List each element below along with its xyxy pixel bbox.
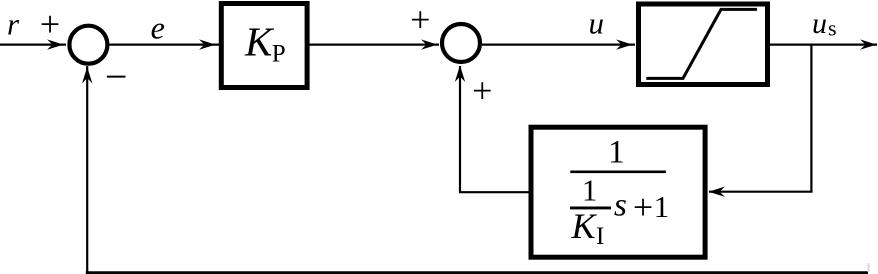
svg-text:s: s (828, 16, 837, 41)
svg-text:−: − (105, 54, 128, 99)
svg-text:1: 1 (582, 173, 598, 208)
svg-text:r: r (7, 7, 20, 42)
svg-text:e: e (151, 10, 165, 46)
svg-text:1: 1 (608, 134, 625, 170)
svg-text:+: + (40, 4, 60, 44)
svg-text:u: u (812, 7, 827, 40)
svg-text:P: P (272, 41, 286, 68)
svg-text:K: K (244, 19, 275, 65)
svg-text:K: K (571, 206, 598, 246)
svg-text:+: + (633, 187, 653, 227)
svg-text:u: u (588, 6, 604, 41)
svg-text:+: + (472, 71, 492, 111)
svg-text:I: I (596, 223, 604, 250)
svg-text:+: + (410, 0, 430, 40)
svg-text:s: s (614, 188, 627, 224)
svg-text:1: 1 (654, 189, 670, 224)
